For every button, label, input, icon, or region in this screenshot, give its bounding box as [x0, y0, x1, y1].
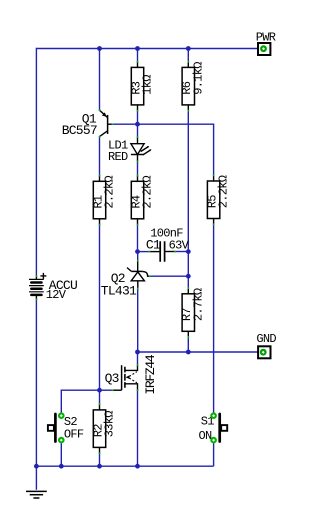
wire cap node to TL431 [137, 252, 139, 261]
wire left column battery top [35, 48, 37, 276]
wire R6 bottom to cap node [187, 111, 189, 252]
wire R6 top [187, 49, 189, 62]
wire drain node to Q3 [137, 352, 139, 365]
resistor R6 9.1k [180, 62, 205, 111]
mosfet Q3 IRFZ44 [105, 354, 159, 395]
pad S1 pin 1 [210, 412, 217, 419]
svg-text:12V: 12V [46, 288, 67, 302]
node gate col2 [97, 388, 102, 393]
svg-text:GND: GND [256, 332, 276, 346]
node top rail col4 [186, 46, 191, 51]
wire col2 emitter Q1 [99, 49, 101, 111]
pin R7 top [188, 287, 190, 289]
svg-text:2.2kΩ: 2.2kΩ [141, 176, 155, 209]
wire TL431 ref to col4 [150, 275, 188, 277]
pin R4 top [137, 175, 139, 177]
connector PWR [256, 31, 276, 56]
wire R1 bottom to gate node [99, 225, 101, 391]
svg-text:RED: RED [108, 150, 128, 164]
svg-text:ON: ON [199, 429, 213, 443]
pin R2 bottom [99, 452, 101, 454]
pin R2 top [99, 403, 101, 405]
pin Q3 drain [137, 364, 139, 366]
wire cap node col4 to R7 [187, 252, 189, 289]
LED LD1 RED [108, 137, 152, 164]
svg-text:OFF: OFF [64, 428, 84, 442]
node cap col4 [186, 249, 191, 254]
wire battery bottom to bottom rail [35, 299, 37, 466]
wire gate node to R2 [99, 390, 101, 404]
ground [26, 491, 47, 498]
switch S1 ON [199, 414, 228, 443]
node rail source [135, 464, 140, 469]
pin R5 bottom [213, 223, 215, 225]
pin Q2 ref [149, 275, 151, 277]
node rail battery [34, 464, 39, 469]
wire R3 top [137, 49, 139, 62]
wire R2 bottom to rail [99, 453, 101, 466]
node top rail col3 [135, 46, 140, 51]
resistor R5 2.2k [205, 175, 230, 224]
svg-text:9.1kΩ: 9.1kΩ [191, 62, 205, 95]
pin Q2 anode [137, 288, 139, 290]
pin C1 left [149, 251, 151, 253]
pin R6 top [188, 61, 190, 63]
pin Q2 cathode [137, 260, 139, 262]
node base col3 [135, 122, 140, 127]
pin R3 top [137, 61, 139, 63]
wire TL431 anode to drain node [137, 289, 139, 353]
wire R3 bottom to base node [137, 111, 139, 125]
wire base rail to R5 [112, 124, 213, 175]
wire Q3 source to bottom rail [137, 390, 139, 466]
connector GND [256, 332, 276, 358]
svg-text:2.7kΩ: 2.7kΩ [191, 288, 205, 321]
svg-text:TL431: TL431 [101, 283, 137, 298]
svg-text:IRFZ44: IRFZ44 [143, 354, 158, 395]
transistor Q1 BC557 [62, 110, 113, 138]
svg-text:2.2kΩ: 2.2kΩ [217, 175, 231, 208]
pin Q1 base [112, 123, 114, 125]
wire R5 bottom to S1 [213, 225, 215, 413]
svg-text:1kΩ: 1kΩ [141, 75, 155, 95]
resistor R1 2.2k [91, 176, 116, 225]
switch S2 OFF [48, 414, 84, 442]
pin R1 top [99, 175, 101, 177]
resistor R3 1k [129, 62, 154, 111]
wire bottom rail [36, 465, 213, 467]
node top rail col2 [97, 46, 102, 51]
node ref col4 [186, 274, 191, 279]
svg-text:BC557: BC557 [62, 123, 97, 138]
wire C1 right [175, 251, 188, 253]
svg-text:2.2kΩ: 2.2kΩ [103, 176, 117, 209]
pad S2 pin 1 [58, 412, 65, 419]
pin Q1 emitter [99, 109, 101, 111]
pin Q1 collector [99, 136, 101, 138]
shunt regulator Q2 TL431 [101, 261, 150, 299]
capacitor C1 100nF 63V [146, 227, 190, 262]
wire gate branch [100, 389, 113, 391]
wire ground stub [35, 466, 37, 490]
wire S1 bottom to rail [213, 443, 215, 466]
resistor R7 2.7k [180, 288, 205, 337]
pin R4 bottom [137, 224, 139, 226]
node cap col3 [135, 249, 140, 254]
pad S1 pin 2 [210, 437, 217, 444]
wire S2 branch [61, 390, 99, 412]
svg-text:33kΩ: 33kΩ [103, 411, 117, 438]
pin R1 bottom [99, 224, 101, 226]
pin R3 bottom [137, 110, 139, 112]
node drain col3 [135, 350, 140, 355]
pin LED anode [137, 136, 139, 138]
battery B1 ACCU 12V [29, 273, 77, 302]
node gnd col4 [186, 350, 191, 355]
pin R7 bottom [188, 336, 190, 338]
pin battery + [36, 275, 38, 277]
wire C1 left [138, 251, 150, 253]
wire Q1 collector to R1 [99, 137, 101, 176]
resistor R4 2.2k [129, 176, 154, 225]
wire S2 bottom to rail [60, 443, 62, 466]
svg-text:Q3: Q3 [105, 371, 119, 386]
pin LED cathode [137, 161, 139, 163]
pin Q3 source [137, 389, 139, 391]
wire LED to R4 [137, 161, 139, 175]
node rail R2 [97, 464, 102, 469]
svg-text:63V: 63V [169, 238, 190, 252]
wire R7 bottom to gnd rail [187, 337, 189, 352]
pin Q3 gate [112, 389, 114, 391]
wire gnd rail [138, 351, 258, 353]
svg-text:PWR: PWR [256, 31, 276, 45]
wire top rail V+ [36, 48, 257, 50]
svg-text:C1: C1 [146, 237, 161, 252]
node rail S2 [59, 464, 64, 469]
wire R4 bottom to cap node [137, 225, 139, 252]
pin R5 top [213, 175, 215, 177]
wire base node to LED [137, 124, 139, 137]
resistor R2 33k [91, 404, 116, 453]
pin R6 bottom [188, 110, 190, 112]
pin battery - [36, 298, 38, 300]
pin C1 right [174, 251, 176, 253]
pad S2 pin 2 [58, 437, 65, 444]
